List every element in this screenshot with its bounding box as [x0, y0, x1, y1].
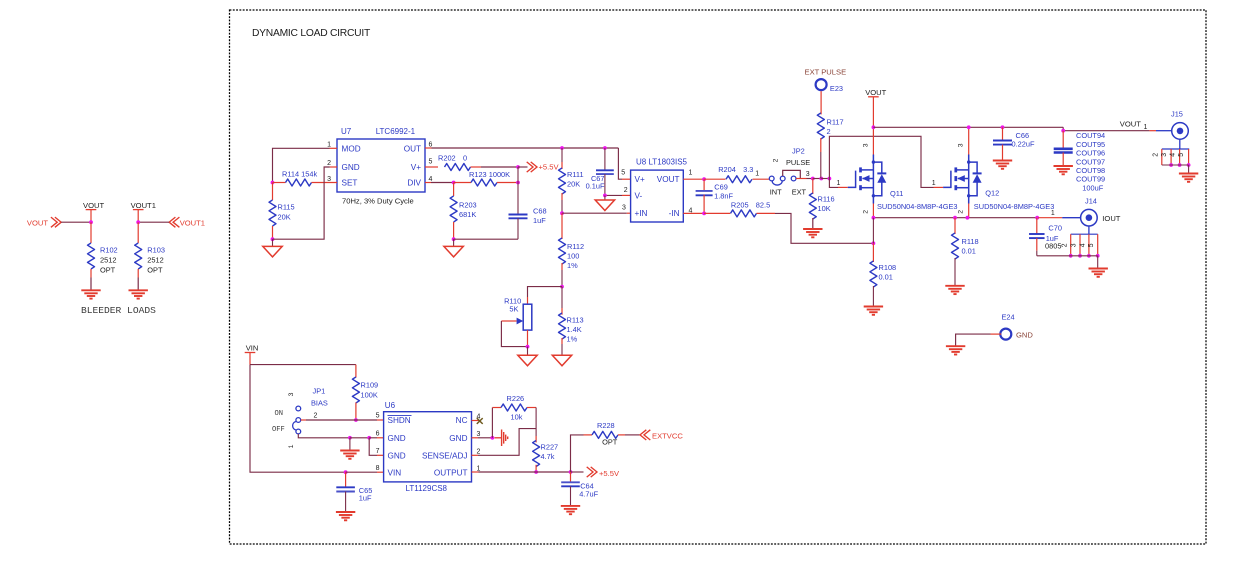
svg-text:SENSE/ADJ: SENSE/ADJ — [422, 452, 468, 461]
J15 shield pin 3 — [1170, 149, 1172, 165]
svg-text:0.01: 0.01 — [879, 273, 893, 282]
svg-text:R204: R204 — [718, 165, 736, 174]
svg-text:R203: R203 — [459, 201, 477, 210]
svg-text:1: 1 — [932, 180, 936, 187]
svg-text:R202: R202 — [438, 154, 456, 163]
svg-text:VIN: VIN — [246, 343, 259, 352]
resistor R108 0.01 — [872, 218, 874, 244]
wire U8 V- pin 2 to C67/ground — [622, 194, 631, 196]
wire VOUT1 stub down — [137, 210, 139, 223]
wire red stub into J15 — [1149, 130, 1156, 132]
wire C70 bottom to J14 shield — [1037, 255, 1098, 257]
svg-text:LT1129CS8: LT1129CS8 — [406, 484, 448, 493]
svg-text:GND: GND — [1016, 330, 1033, 339]
wire R226 to R227 — [535, 408, 537, 437]
svg-text:2512: 2512 — [147, 256, 163, 265]
svg-text:EXT: EXT — [792, 188, 807, 197]
J14 shield pin 3 — [1079, 234, 1081, 256]
svg-text:GND: GND — [342, 163, 360, 172]
junction VOUT1 — [136, 220, 140, 224]
JP2 shunt arc pins 1-2 — [772, 181, 782, 185]
svg-text:R226: R226 — [507, 394, 525, 403]
svg-text:V+: V+ — [635, 175, 645, 184]
svg-text:1: 1 — [288, 444, 295, 448]
svg-text:COUT97: COUT97 — [1076, 157, 1105, 166]
wire R205 to Q11 source sense — [775, 213, 873, 243]
svg-text:OPT: OPT — [147, 266, 163, 275]
ground below R203 (triangle) — [453, 239, 455, 246]
wire U7 GND pin 2 to ground — [330, 166, 337, 168]
svg-text:2: 2 — [862, 210, 869, 214]
svg-text:3: 3 — [1070, 243, 1077, 247]
capacitor C67 0.1uF — [604, 148, 606, 170]
wire U7 DIV pin 4 — [425, 182, 431, 184]
svg-text:EXT PULSE: EXT PULSE — [805, 68, 847, 77]
junction bus/C66 — [1001, 125, 1005, 129]
ground below C67 (triangle) — [604, 195, 606, 200]
svg-text:SET: SET — [342, 179, 358, 188]
resistor R227 4.7k — [535, 436, 537, 442]
svg-text:SUD50N04-8M8P-4GE3: SUD50N04-8M8P-4GE3 — [877, 202, 958, 211]
junction gate node / R117 — [819, 177, 823, 181]
svg-text:+5.5V: +5.5V — [539, 162, 560, 171]
svg-text:VOUT: VOUT — [1120, 119, 1141, 128]
resistor R113 1.4K 1% — [561, 287, 563, 308]
svg-text:3: 3 — [806, 171, 810, 178]
svg-text:GND: GND — [449, 434, 467, 443]
wire junction to R102 — [90, 222, 92, 243]
svg-text:OPT: OPT — [602, 438, 618, 447]
junction MOD/R114/R115 — [271, 181, 275, 185]
wire R103 to ground — [137, 269, 139, 278]
svg-text:6: 6 — [376, 431, 380, 438]
svg-text:COUT98: COUT98 — [1076, 166, 1105, 175]
svg-text:VIN: VIN — [388, 468, 402, 477]
svg-text:10k: 10k — [511, 412, 523, 421]
capacitor C70 1uF 0805 — [1036, 218, 1038, 234]
svg-text:0.01: 0.01 — [962, 247, 976, 256]
svg-text:C70: C70 — [1048, 223, 1062, 232]
svg-text:C68: C68 — [533, 207, 547, 216]
resistor R114 154k — [273, 182, 286, 184]
junction R203/ground wire — [452, 237, 456, 241]
wire VIN rail — [250, 364, 356, 366]
svg-text:R111: R111 — [567, 170, 584, 179]
junction source bus/Q11 — [872, 216, 876, 220]
svg-text:VOUT1: VOUT1 — [131, 201, 156, 210]
svg-text:70Hz, 3% Duty Cycle: 70Hz, 3% Duty Cycle — [342, 196, 414, 205]
junction OUTPUT/C64/R228 — [569, 470, 573, 474]
svg-text:1%: 1% — [567, 261, 578, 270]
svg-text:COUT95: COUT95 — [1076, 140, 1105, 149]
resistor R205 82.5 — [704, 212, 730, 214]
svg-text:1: 1 — [1144, 124, 1148, 131]
svg-text:100K: 100K — [361, 391, 378, 400]
svg-text:R205: R205 — [731, 200, 749, 209]
ground below R108 — [864, 306, 883, 308]
svg-text:VOUT: VOUT — [865, 88, 886, 97]
svg-text:R227: R227 — [541, 443, 559, 452]
U6 NC pin 4 no-connect X — [472, 420, 480, 422]
junction R227/OUTPUT — [534, 470, 538, 474]
wire riser to U6 GND pin 7 — [369, 438, 377, 456]
svg-text:JP2: JP2 — [792, 147, 805, 156]
junction VIN rail/C65 — [344, 470, 348, 474]
svg-text:R228: R228 — [597, 421, 615, 430]
svg-text:2: 2 — [327, 160, 331, 167]
wire to U6 GND pin 6 — [369, 437, 377, 439]
svg-text:1.8nF: 1.8nF — [714, 191, 733, 200]
wire gate node — [813, 178, 822, 180]
svg-text:20K: 20K — [567, 180, 580, 189]
svg-text:OPT: OPT — [100, 266, 116, 275]
resistor R118 0.01 — [954, 218, 956, 234]
svg-text:VOUT: VOUT — [83, 201, 104, 210]
svg-text:Q11: Q11 — [890, 189, 903, 198]
svg-text:R115: R115 — [278, 203, 295, 212]
svg-text:R118: R118 — [962, 237, 979, 246]
J14 shield pins box — [1071, 233, 1098, 235]
wire C68 bottom to R203 bottom — [454, 238, 518, 240]
capacitor C69 1.8nF — [703, 179, 705, 191]
svg-text:0805: 0805 — [1045, 241, 1061, 250]
wire OUT bus down to U8 V+ pin 5 — [618, 148, 622, 179]
wire U8 -IN pin 4 — [683, 212, 704, 214]
power flag +5.5V (upper) — [518, 166, 528, 168]
junction source bus/R118 — [953, 216, 957, 220]
transistor Q11 SUD50N04-8M8P-4GE3 — [848, 171, 856, 188]
svg-text:7: 7 — [376, 448, 380, 455]
svg-text:3: 3 — [288, 392, 295, 396]
wire +IN to U8 pin 3 — [562, 212, 627, 214]
resistor R117 2 — [820, 91, 822, 114]
svg-text:20K: 20K — [278, 213, 291, 222]
resistor R112 100 1% — [561, 213, 563, 239]
svg-text:1: 1 — [689, 169, 693, 176]
wire junction to R110 pot — [528, 287, 563, 297]
wire VOUT stub down — [90, 210, 92, 223]
svg-text:8: 8 — [376, 465, 380, 472]
svg-text:BIAS: BIAS — [311, 399, 328, 408]
svg-text:OFF: OFF — [272, 426, 285, 434]
Q12 drain stub pin 3 — [968, 127, 970, 154]
J15 shield pin 5 — [1188, 149, 1190, 165]
J14 shield pin 4 — [1088, 234, 1090, 256]
junction R110 wiper/bottom — [526, 345, 530, 349]
junction pin3/R226 riser — [491, 436, 495, 440]
ground below R110 (triangle) — [527, 347, 529, 356]
svg-text:EXTVCC: EXTVCC — [652, 431, 683, 440]
wire red stub into J14 — [1038, 217, 1062, 219]
svg-text:3: 3 — [862, 143, 869, 147]
svg-text:5: 5 — [1088, 243, 1095, 247]
svg-text:SUD50N04-8M8P-4GE3: SUD50N04-8M8P-4GE3 — [974, 202, 1055, 211]
ground below R118 — [945, 285, 964, 287]
resistor R203 681K — [453, 183, 455, 197]
junction VOUT/C69 — [702, 177, 706, 181]
svg-text:0: 0 — [463, 154, 467, 163]
junction gate node / R116 — [811, 177, 815, 181]
junction R123/C68 column — [516, 181, 520, 185]
ground below R116 — [803, 228, 822, 230]
svg-text:+5.5V: +5.5V — [599, 469, 620, 478]
power flag +5.5V (lower) — [571, 471, 584, 473]
svg-text:R109: R109 — [361, 381, 379, 390]
junction R111/R112/+IN — [560, 211, 564, 215]
J15 shield pin 2 — [1161, 149, 1163, 165]
resistor R109 100K — [355, 365, 357, 378]
wire VIN rail into U6 pin 8 — [346, 471, 377, 473]
svg-text:2: 2 — [477, 449, 481, 456]
capacitor C65 1uF — [345, 472, 347, 487]
svg-text:5: 5 — [429, 158, 433, 165]
op-amp U6 LT1129CS8 body — [384, 412, 472, 482]
svg-text:R103: R103 — [147, 246, 165, 255]
svg-text:2: 2 — [624, 187, 628, 194]
net flag VOUT1 (red, right) — [169, 217, 175, 227]
svg-text:+IN: +IN — [635, 209, 648, 218]
Q11 source stub pin 2 — [872, 204, 874, 218]
svg-text:R112: R112 — [567, 242, 584, 251]
svg-text:COUT96: COUT96 — [1076, 149, 1105, 158]
svg-text:1%: 1% — [567, 335, 578, 344]
junction source bus/C70 — [1035, 216, 1039, 220]
transistor Q12 SUD50N04-8M8P-4GE3 — [943, 171, 951, 188]
svg-text:R114 154k: R114 154k — [282, 170, 318, 179]
Q12 source stub pin 2 — [968, 204, 970, 218]
JP2 pin2 staple wire — [783, 170, 801, 178]
junction R109/SHDN wire — [354, 418, 358, 422]
junction sense wire / R108 — [872, 241, 876, 245]
svg-text:5: 5 — [1178, 153, 1185, 157]
Q11 drain stub pin 3 — [872, 127, 874, 154]
junction bus/Q12 drain — [967, 125, 971, 129]
svg-text:U8 LT1803IS5: U8 LT1803IS5 — [636, 157, 688, 166]
svg-text:DYNAMIC LOAD CIRCUIT: DYNAMIC LOAD CIRCUIT — [252, 28, 371, 39]
svg-text:5: 5 — [376, 413, 380, 420]
junction OUT/C67 — [603, 146, 607, 150]
svg-text:100: 100 — [567, 252, 579, 261]
svg-text:3.3: 3.3 — [743, 165, 753, 174]
wire Q11/Q12 source bus — [873, 217, 1038, 219]
svg-text:R108: R108 — [879, 263, 897, 272]
svg-text:BLEEDER LOADS: BLEEDER LOADS — [81, 305, 156, 316]
svg-text:10K: 10K — [818, 204, 831, 213]
svg-text:MOD: MOD — [342, 145, 361, 154]
junction bus/COUT bank — [1061, 129, 1065, 133]
svg-text:VOUT: VOUT — [657, 175, 680, 184]
resistor R228 OPT — [571, 435, 584, 472]
wire gnd rail to pin7 riser — [350, 437, 369, 439]
wire J14 shield to ground — [1097, 256, 1099, 269]
svg-text:681K: 681K — [459, 210, 476, 219]
potentiometer R110 5K — [527, 297, 529, 304]
ground below COUT bank — [1054, 165, 1073, 167]
wire R110 bottom — [527, 330, 529, 347]
svg-text:2: 2 — [958, 210, 965, 214]
svg-text:VOUT1: VOUT1 — [180, 218, 205, 227]
junction C67/V-/ground — [603, 194, 607, 198]
wire U7 MOD pin 1 loop — [330, 147, 338, 149]
svg-text:LTC6992-1: LTC6992-1 — [376, 127, 416, 136]
junction VOUT/Q11 drain — [872, 125, 876, 129]
junction OUT/R111 — [560, 146, 564, 150]
svg-text:1: 1 — [1051, 210, 1055, 217]
junction R202/+5.5V/C68 — [516, 165, 520, 169]
svg-text:SHDN: SHDN — [388, 416, 411, 425]
svg-text:COUT94: COUT94 — [1076, 131, 1105, 140]
svg-text:PULSE: PULSE — [786, 158, 810, 167]
dashed border frame of dynamic load circuit block — [230, 10, 1207, 544]
junction gnd rail/pin7 riser — [367, 436, 371, 440]
ground below R103 — [129, 289, 148, 291]
J15 shield bottom wire — [1162, 164, 1189, 166]
svg-text:1: 1 — [837, 180, 841, 187]
svg-text:U6: U6 — [385, 401, 396, 410]
svg-text:4.7k: 4.7k — [541, 452, 555, 461]
svg-text:INT: INT — [770, 188, 782, 197]
J14 shield pin 2 — [1070, 234, 1072, 256]
svg-text:5K: 5K — [509, 305, 518, 314]
svg-text:COUT99: COUT99 — [1076, 175, 1105, 184]
J15 shield pin 4 — [1179, 149, 1181, 165]
svg-text:1uF: 1uF — [533, 216, 546, 225]
svg-text:4: 4 — [1170, 153, 1177, 157]
wire VOUT flag to junction — [61, 221, 91, 223]
wire riser to R226 — [491, 408, 493, 438]
svg-text:R102: R102 — [100, 246, 118, 255]
junction pin1 wire/ground stub — [348, 436, 352, 440]
svg-text:OUT: OUT — [404, 145, 421, 154]
svg-text:3: 3 — [477, 431, 481, 438]
svg-text:GND: GND — [388, 434, 406, 443]
wire U8 VOUT pin 1 — [683, 178, 704, 180]
svg-text:JP1: JP1 — [313, 387, 326, 396]
ground for E24 — [946, 345, 965, 347]
svg-text:R116: R116 — [818, 195, 835, 204]
wire J15 shield to ground — [1188, 165, 1190, 174]
svg-text:5: 5 — [621, 170, 625, 177]
J14 shield pin 5 — [1097, 234, 1099, 256]
svg-text:2: 2 — [773, 158, 780, 162]
small ground right of pin 3 — [495, 437, 502, 439]
resistor R226 10k — [492, 407, 501, 409]
svg-text:4: 4 — [1079, 243, 1086, 247]
junction source bus/Q12 — [966, 216, 970, 220]
ground below R113 (triangle) — [552, 355, 571, 366]
resistor R111 20K — [561, 148, 563, 162]
ground below C65 — [336, 511, 355, 513]
wire VOUT1 junction to flag — [138, 221, 169, 223]
svg-text:3: 3 — [622, 204, 626, 211]
ground below GND rail — [349, 438, 351, 451]
svg-text:82.5: 82.5 — [756, 200, 770, 209]
svg-text:1: 1 — [755, 170, 759, 177]
junction gate node / Q12 branch — [828, 177, 832, 181]
ground below C64 — [561, 505, 580, 507]
svg-text:ON: ON — [275, 410, 284, 418]
svg-text:R117: R117 — [827, 118, 844, 127]
op-amp U7 LTC6992-1 body — [337, 139, 425, 192]
svg-text:V+: V+ — [411, 163, 421, 172]
svg-text:1: 1 — [327, 142, 331, 149]
junction VOUT — [89, 220, 93, 224]
capacitor C68 1uF — [517, 167, 519, 215]
junction DIV/R123/R203 — [452, 181, 456, 185]
svg-text:2512: 2512 — [100, 256, 116, 265]
wire JP1 pin2 to U6 SHDN — [301, 419, 306, 421]
svg-text:3: 3 — [958, 143, 965, 147]
svg-text:J15: J15 — [1171, 109, 1183, 118]
svg-text:2: 2 — [827, 127, 831, 136]
wire U6 GND pin 3 — [472, 437, 479, 439]
resistor R103 — [135, 243, 142, 269]
wire Q11 gate from node — [829, 179, 838, 188]
junction R115/GND wire — [271, 237, 275, 241]
J15 shield pins box — [1162, 148, 1189, 150]
svg-text:2: 2 — [314, 413, 318, 420]
capacitor C66 0.22uF — [1002, 127, 1004, 140]
svg-text:IOUT: IOUT — [1102, 214, 1121, 223]
resistor R115 20K — [272, 183, 274, 201]
svg-text:NC: NC — [456, 416, 468, 425]
ground below R102 — [81, 289, 100, 291]
resistor R102 — [88, 243, 95, 269]
wire U6 SENSE/ADJ pin 2 — [472, 454, 479, 456]
svg-text:R123 1000K: R123 1000K — [469, 170, 510, 179]
svg-text:U7: U7 — [341, 127, 352, 136]
wire U6 OUTPUT pin 1 — [472, 471, 479, 473]
wire Q12 gate over-route — [829, 136, 933, 187]
svg-text:1.4K: 1.4K — [567, 325, 582, 334]
wire E24 to ground — [991, 333, 1002, 335]
svg-text:1uF: 1uF — [359, 494, 372, 503]
wire junction to R103 — [137, 222, 139, 243]
resistor R123 1000K — [454, 182, 471, 184]
op-amp U8 LT1803IS5 body — [631, 170, 684, 222]
svg-text:V-: V- — [635, 191, 643, 200]
svg-text:R113: R113 — [567, 316, 584, 325]
ground below J14 — [1089, 268, 1108, 270]
wire U7 OUT pin 6 bus — [425, 147, 432, 149]
svg-text:-IN: -IN — [669, 209, 680, 218]
svg-text:100uF: 100uF — [1082, 183, 1103, 192]
svg-text:4.7uF: 4.7uF — [579, 489, 598, 498]
resistor R116 10K — [812, 179, 814, 195]
junction R112/R113/R110 — [560, 285, 564, 289]
wire VOUT top bus — [873, 126, 1063, 128]
resistor R204 3.3 — [704, 178, 725, 180]
wire R102 to ground — [90, 269, 92, 278]
svg-text:2: 2 — [1062, 243, 1069, 247]
wire VIN down — [249, 353, 251, 365]
ground below C66 — [993, 160, 1012, 162]
svg-text:E23: E23 — [830, 84, 843, 93]
svg-text:0.22uF: 0.22uF — [1012, 139, 1035, 148]
svg-text:0.1uF: 0.1uF — [586, 182, 605, 191]
svg-text:Q12: Q12 — [985, 189, 999, 198]
svg-text:C69: C69 — [714, 182, 728, 191]
svg-text:DIV: DIV — [407, 179, 421, 188]
resistor R202 0 — [425, 166, 438, 168]
wire JP1 pin1 to GND rail — [298, 434, 350, 438]
ground below R115 (triangle) — [272, 239, 274, 246]
capacitor C64 4.7uF — [570, 472, 572, 482]
svg-text:E24: E24 — [1002, 313, 1015, 322]
ground below J15 — [1179, 173, 1198, 175]
wire bus jog down to J15 — [1063, 127, 1149, 130]
svg-text:GND: GND — [388, 452, 406, 461]
